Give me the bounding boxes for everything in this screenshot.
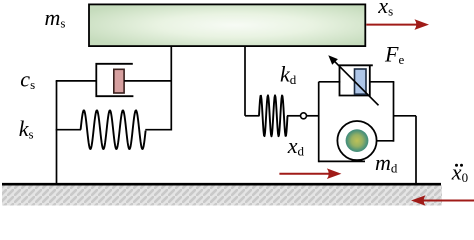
wire pin to box	[307, 115, 320, 117]
wire damper branch	[56, 80, 97, 82]
svg-text:ks: ks	[19, 116, 34, 142]
damper F_e top plate	[339, 64, 373, 66]
svg-text:x0: x0	[451, 159, 468, 185]
damper C_s rod	[124, 80, 172, 82]
spring k_d	[259, 95, 288, 136]
wire k_d drop from block	[244, 46, 246, 116]
ground	[2, 185, 442, 206]
wire right vertical of cs-ks	[170, 46, 172, 131]
pin joint	[301, 113, 307, 119]
box bottom edge	[319, 160, 365, 162]
wire k_d to pin	[287, 115, 301, 117]
box top-left edge	[319, 81, 341, 83]
wire circle link to right edge	[377, 140, 394, 142]
damper C_s piston	[114, 69, 124, 93]
svg-text:cs: cs	[20, 67, 35, 93]
svg-text:ms: ms	[45, 5, 66, 31]
wire left vertical	[56, 81, 58, 184]
svg-text:xd: xd	[287, 133, 305, 159]
wire ground vertical	[415, 116, 417, 184]
svg-text:Fe: Fe	[384, 42, 404, 68]
damper F_e piston	[355, 69, 367, 94]
mass m_d inner disc	[346, 129, 369, 152]
arrow x0 (base excitation)	[423, 200, 474, 202]
arrow x_s	[366, 24, 418, 26]
wire spring to right vertical	[145, 129, 172, 131]
mass block m_s	[89, 4, 365, 46]
mass m_d outer circle	[337, 121, 376, 160]
damper F_e cylinder	[340, 65, 370, 95]
damper F_e variable arrow	[332, 58, 379, 105]
spring k_s	[81, 110, 146, 149]
svg-text:kd: kd	[280, 61, 297, 87]
ground line	[2, 183, 441, 186]
box left edge	[318, 82, 320, 162]
box top-right edge	[369, 81, 394, 83]
damper C_s cylinder	[96, 64, 133, 96]
wire k_d horizontal	[245, 115, 260, 117]
svg-text:md: md	[375, 150, 398, 176]
arrow x_d	[279, 173, 330, 175]
box right edge	[393, 82, 395, 142]
svg-text:xs: xs	[377, 0, 393, 19]
wire spring branch	[56, 129, 81, 131]
wire box to ground step	[394, 115, 417, 117]
